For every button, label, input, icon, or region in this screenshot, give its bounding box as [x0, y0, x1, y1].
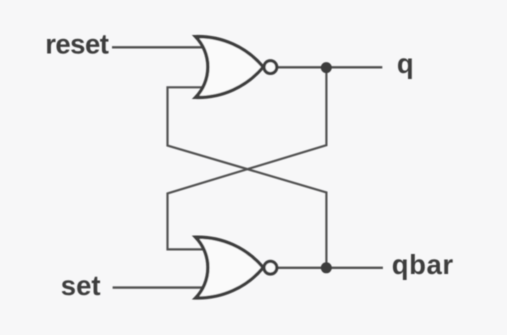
- wire reset input: [112, 46, 204, 48]
- svg-text:qbar: qbar: [392, 249, 454, 280]
- svg-text:set: set: [61, 270, 101, 301]
- wire qbar output: [278, 267, 383, 269]
- node qbar junction: [321, 262, 332, 273]
- node q junction: [321, 62, 332, 73]
- svg-text:reset: reset: [45, 29, 109, 60]
- svg-text:q: q: [397, 48, 414, 79]
- wire q output: [278, 66, 382, 68]
- wire feedback q to bottom gate input: [168, 68, 327, 250]
- bubble on U1 output: [264, 61, 277, 74]
- NOR gate U2 (bottom, set input): [196, 237, 264, 298]
- wire set input: [113, 286, 204, 288]
- NOR gate U1 (top, reset input): [196, 37, 264, 98]
- bubble on U2 output: [264, 261, 277, 274]
- wire feedback qbar to top gate input: [168, 87, 327, 267]
